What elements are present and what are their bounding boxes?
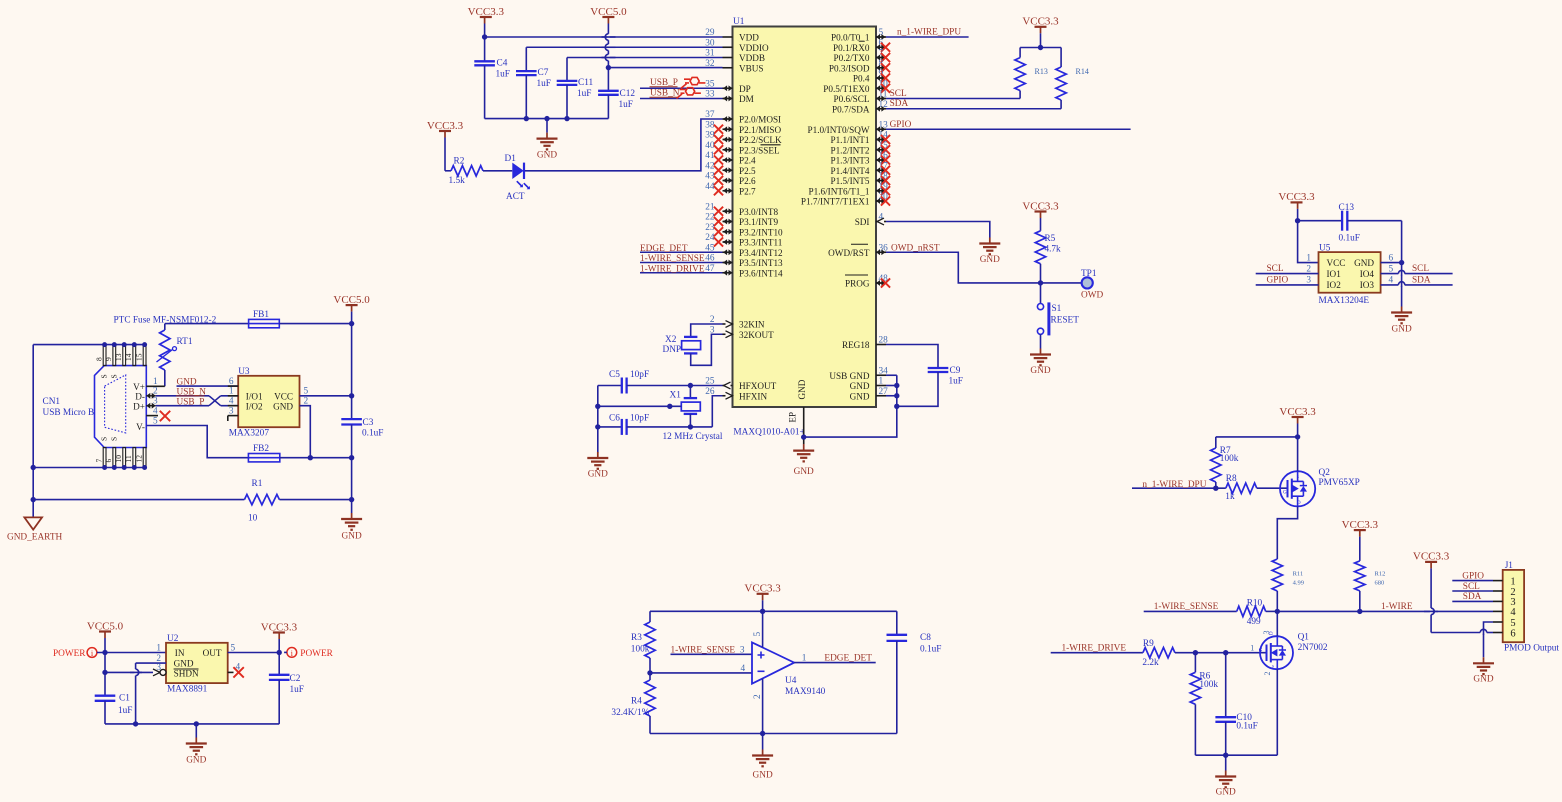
U1 pin 4 SDI [876,221,886,223]
U3 pin 6 [228,385,238,387]
net 1-WIRE wire [1277,610,1493,612]
ferrite bead FB2 [248,454,279,462]
svg-text:P3.3/INT11: P3.3/INT11 [739,238,783,248]
U1 pin 43 P2.6 [723,180,733,182]
svg-text:5: 5 [153,416,158,426]
svg-text:R12: R12 [1375,571,1386,578]
svg-text:PMV65XP: PMV65XP [1319,478,1360,488]
power indicator POWER (output) [287,648,297,658]
J1 pin 2 [1493,590,1503,592]
U1 pin 2 32KIN [723,323,733,325]
wire VDDIO (restore at hop) [602,46,616,48]
svg-text:1-WIRE_DRIVE: 1-WIRE_DRIVE [640,264,705,274]
svg-text:P2.7: P2.7 [739,186,756,196]
IC U1 MAXQ1010-A01+ body [733,27,877,408]
wire VBUS [608,67,722,69]
svg-text:32.4K/1%: 32.4K/1% [611,708,649,718]
svg-text:SDA: SDA [890,99,909,109]
svg-text:13: 13 [114,353,123,361]
svg-text:R4: R4 [631,697,642,707]
U3 pin 3 stub [228,415,238,417]
node junction [760,731,765,736]
capacitor C9 1uF [928,367,949,369]
wire J1 pin5 to ground [1484,622,1494,657]
svg-text:DP: DP [739,84,751,94]
svg-text:3: 3 [740,646,745,656]
svg-text:VCC: VCC [1327,258,1346,268]
wire POWER to IN [97,652,166,654]
wire HFXIN [712,396,722,427]
svg-text:Q2: Q2 [1319,468,1331,478]
svg-text:1-WIRE_SENSE: 1-WIRE_SENSE [671,646,736,656]
svg-text:V+: V+ [133,382,145,392]
wire R2 to D1 [483,170,512,172]
U3 pin 1 [228,395,238,397]
svg-text:2: 2 [753,694,763,699]
ground GND (regulator) [195,724,197,738]
capacitor C6 10pF [598,426,622,428]
svg-text:4.7k: 4.7k [1045,244,1061,254]
U1 pin P0.1 RX0 overline [859,40,865,42]
svg-text:9: 9 [104,357,113,361]
svg-text:C8: C8 [920,633,931,643]
svg-text:U3: U3 [238,367,250,377]
net USB_N wire to DM [640,98,723,100]
svg-text:R2: R2 [454,157,465,167]
U1 pin 18 P1.5/INT5 [876,180,886,182]
net 1-WIRE_SENSE wire [1144,610,1237,612]
U1 pin 16 P1.3/INT3 [876,159,886,161]
node junction [1038,45,1043,50]
svg-text:G: G [1283,491,1287,496]
svg-text:C5: C5 [609,370,620,380]
svg-text:VDDIO: VDDIO [739,43,769,53]
svg-text:P3.0/INT8: P3.0/INT8 [739,207,778,217]
svg-text:GND: GND [588,470,608,480]
node junction X1 top [688,383,693,388]
U1 pin 25 HFXOUT [723,385,733,387]
svg-text:P0.1/RX0: P0.1/RX0 [833,43,870,53]
ground GND (SDI) [989,238,991,244]
svg-text:P2.2/SCLK: P2.2/SCLK [739,135,782,145]
wire 32KIN [691,324,723,337]
svg-text:32KOUT: 32KOUT [739,330,774,340]
svg-text:S: S [100,374,109,378]
svg-text:HFXIN: HFXIN [739,391,767,401]
svg-text:6: 6 [1389,253,1394,263]
wire Q1 drain to 1-WIRE [1276,611,1278,636]
svg-text:0.1uF: 0.1uF [362,429,383,439]
svg-text:P1.3/INT3: P1.3/INT3 [830,156,869,166]
resistor R11 4.99 [1276,547,1278,559]
svg-text:GND: GND [174,659,194,669]
svg-text:P1.1/INT1: P1.1/INT1 [830,135,869,145]
svg-text:4: 4 [1510,607,1516,618]
svg-text:2: 2 [304,397,309,407]
svg-text:P3.1/INT9: P3.1/INT9 [739,217,778,227]
svg-text:MAX13204E: MAX13204E [1319,296,1370,306]
svg-text:VDDB: VDDB [739,53,765,63]
differential pair mark USB_N [677,94,683,99]
U1 pin 12 P0.7/SDA [876,108,886,110]
U1 pin 38 P2.1/MISO [723,128,733,130]
svg-text:FB2: FB2 [253,444,269,454]
node junction EP [801,434,806,439]
wire shield left column [32,345,34,518]
crystal X2 DNP [684,336,697,338]
svg-text:DM: DM [739,94,754,104]
svg-text:VBUS: VBUS [739,63,764,73]
wire VDDB (restore at hop) [602,57,616,59]
net OWD_nRST wire [886,252,1041,283]
U1 pin 30 VDDIO [723,46,733,48]
svg-text:P2.6: P2.6 [739,176,756,186]
wire hop [607,54,609,60]
svg-text:P0.6/SCL: P0.6/SCL [834,94,870,104]
svg-text:2: 2 [153,387,158,397]
svg-text:V-: V- [136,422,145,432]
svg-text:IO3: IO3 [1360,280,1375,290]
CN1 pin 2 D- wire USB_N [146,393,155,399]
capacitor C10 0.1uF [1225,653,1227,718]
svg-text:EDGE_DET: EDGE_DET [640,244,688,254]
U1 pin 40 P2.3/SSEL [723,149,733,151]
U1 pin 11 P0.6/SCL [876,98,886,100]
svg-text:D1: D1 [505,154,517,164]
svg-text:P0.4: P0.4 [853,74,870,84]
svg-text:S: S [110,374,119,378]
svg-text:1k: 1k [1225,492,1235,502]
U1 pin 32 VBUS [723,67,733,69]
svg-text:J1: J1 [1505,561,1514,571]
svg-text:IO1: IO1 [1327,269,1342,279]
svg-text:D+: D+ [133,402,145,412]
svg-text:10pF: 10pF [630,370,649,380]
U1 pin 34 USB GND [876,374,886,376]
wire VDD (restore at hop) [602,36,616,38]
svg-text:1: 1 [1306,253,1311,263]
connector J1 PMOD body [1503,570,1524,642]
ground GND (EP) [803,444,805,451]
svg-text:POWER: POWER [53,649,86,659]
net GPIO wire (P1.0) [886,128,1131,130]
net 1-WIRE_SENSE wire to P3.5 [640,262,723,264]
svg-text:P2.4: P2.4 [739,156,756,166]
U1 pin 45 P3.4/INT12 [723,251,733,253]
svg-text:P1.4/INT4: P1.4/INT4 [830,166,869,176]
U1 pin 19 P1.6/INT6/T1_1 [876,190,886,192]
node junction C7 [524,116,529,121]
svg-text:R11: R11 [1293,571,1304,578]
svg-text:R8: R8 [1226,474,1237,484]
svg-text:IO2: IO2 [1327,280,1342,290]
svg-text:GND: GND [797,379,807,399]
svg-text:6: 6 [1510,628,1515,639]
svg-text:1.5k: 1.5k [449,176,466,186]
svg-text:1: 1 [802,653,807,663]
node junction [1223,753,1228,758]
U1 pin 36 OWD/RST [876,251,886,253]
svg-text:SDI: SDI [855,217,870,227]
J1 pin 6 [1493,632,1503,634]
net GPIO wire (J1) [1452,580,1493,582]
crystal X1 12MHz [689,386,691,399]
wire shell bottom [33,467,144,469]
wire to test point TP1 [1041,282,1082,284]
capacitor C8 0.1uF [896,611,898,635]
CN1 pin 5 V- wire [146,426,248,458]
svg-text:S: S [110,437,119,441]
svg-text:P3.4/INT12: P3.4/INT12 [739,248,783,258]
U1 pin 47 P3.6/INT14 [723,272,733,274]
capacitor C11 [566,58,568,81]
resistor R10 499 [1237,606,1266,616]
svg-text:MAXQ1010-A01+: MAXQ1010-A01+ [733,428,804,438]
node junction case [667,404,672,409]
wire ESD ground column [1401,221,1403,307]
net SCL wire (J1) [1452,590,1493,592]
svg-text:GND: GND [1392,325,1412,335]
svg-text:R10: R10 [1247,598,1263,608]
svg-text:0.1uF: 0.1uF [1236,722,1257,732]
CN1 shell pins bottom (7 6 10 11 12) [103,448,106,467]
capacitor C7 [525,47,527,71]
U1 pin 28 REG18 [876,344,886,346]
svg-text:P1.7/INT7/T1EX1: P1.7/INT7/T1EX1 [801,197,870,207]
svg-text:P0.5/T1EX0: P0.5/T1EX0 [823,84,870,94]
svg-text:P3.2/INT10: P3.2/INT10 [739,227,783,237]
connector CN1 USB Micro B body [95,366,147,448]
U1 pin 37 P2.0/MOSI [723,118,733,120]
svg-text:R1: R1 [252,479,263,489]
wire D1 to P2.0 [525,119,723,171]
svg-text:10: 10 [114,455,123,463]
svg-text:7: 7 [94,459,103,463]
transistor Q2 PMV65XP (PMOS) [1280,471,1315,506]
svg-text:10pF: 10pF [630,413,649,423]
svg-text:CN1: CN1 [43,397,61,407]
U1 pin OWD/RST overline over RST [851,243,868,245]
ground GND (decoupling bus) [546,119,548,133]
IC U5 MAX13204E body [1319,252,1381,293]
svg-text:SCL: SCL [1267,264,1284,274]
resistor R5 4.7k [1035,231,1045,264]
resistor R3 100k [649,611,651,622]
svg-text:GND: GND [980,255,1000,265]
svg-text:U5: U5 [1319,243,1331,253]
svg-text:X1: X1 [670,391,682,401]
node junction C6 X1 [688,424,693,429]
wire shell top [33,344,144,346]
svg-text:VCC: VCC [274,391,293,401]
CN1 pin 3 D+ wire USB_P [146,403,155,409]
svg-text:14: 14 [124,353,133,361]
capacitor C5 10pF [598,385,622,387]
node junction [277,650,282,655]
wire Q1 source to rail [1276,669,1278,755]
wire VCC5.0 to VBUS with hops [607,34,609,68]
svg-text:1-WIRE_SENSE: 1-WIRE_SENSE [1154,602,1219,612]
svg-text:P1.2/INT2: P1.2/INT2 [830,145,869,155]
resistor R1 10 [33,499,244,501]
U1 pin 6 P0.1/RX0 [876,46,886,48]
U1 pin 41 P2.4 [723,159,733,161]
svg-text:SCL: SCL [1463,582,1480,592]
svg-text:P2.5: P2.5 [739,166,756,176]
wire Q2 top rail [1216,436,1298,438]
U1 pin 22 P3.1/INT9 [723,221,733,223]
svg-text:2: 2 [1306,264,1311,274]
svg-text:4: 4 [741,664,746,674]
resistor R2 1.5k [445,170,451,172]
svg-text:S: S [100,437,109,441]
svg-text:USB GND: USB GND [829,371,869,381]
svg-text:P0.0/T0_1: P0.0/T0_1 [831,33,870,43]
capacitor C12 [607,68,609,91]
net n_1-WIRE_DPU wire (P0.0) [886,36,969,38]
svg-text:1: 1 [1510,576,1515,587]
svg-text:2: 2 [1263,672,1272,676]
U1 pin 46 P3.5/INT13 [723,262,733,264]
svg-text:C7: C7 [538,68,549,78]
U1 pin 35 DP [723,87,733,89]
svg-text:GND: GND [537,151,557,161]
U1 pin 5 P0.0/T0_1 [876,36,886,38]
svg-text:GND: GND [1354,258,1374,268]
svg-text:6: 6 [104,459,113,463]
wire SDI to ground [886,222,990,238]
U4 pin 2 supply wire [762,678,764,733]
svg-text:PROG: PROG [845,279,870,289]
svg-text:PMOD Output: PMOD Output [1504,643,1559,653]
U1 pin PROG overline [845,274,868,276]
U5 pin 6 GND wire [1381,262,1402,264]
wire REG18 to C9 [886,345,938,369]
svg-text:RESET: RESET [1051,316,1080,326]
svg-text:MAX9140: MAX9140 [785,687,826,697]
svg-text:GPIO: GPIO [1462,571,1484,581]
node junction OWD [1038,280,1043,285]
svg-text:5: 5 [1510,618,1515,629]
node junction [194,721,199,726]
wire comparator top rail [650,610,897,612]
svg-text:GND: GND [273,402,293,412]
svg-text:U4: U4 [785,676,797,686]
svg-text:2N7002: 2N7002 [1298,643,1328,653]
ground GND (1-wire driver) [1225,755,1227,770]
svg-text:C2: C2 [290,674,301,684]
svg-text:5: 5 [1389,264,1394,274]
svg-text:OWD/RST: OWD/RST [828,248,870,258]
wire Q2 source to VCC [1297,437,1299,471]
node junction [595,424,600,429]
svg-text:100k: 100k [1220,454,1239,464]
svg-text:P2.0/MOSI: P2.0/MOSI [739,115,781,125]
svg-text:R9: R9 [1143,639,1154,649]
wire hop [607,34,609,40]
svg-text:1: 1 [879,377,884,387]
node junction [31,497,36,502]
U1 pin 20 P1.7/INT7/T1EX1 [876,200,886,202]
svg-text:GPIO: GPIO [890,120,912,130]
U5 pin 2 SCL wire [1256,273,1319,275]
svg-text:GND: GND [794,467,814,477]
node junction C9 return [894,404,899,409]
svg-text:3: 3 [153,397,158,407]
svg-text:499: 499 [1247,617,1261,627]
U3 pin 5 VCC wire [300,395,352,397]
svg-text:5: 5 [753,632,763,637]
U3 pin 2 GND wire [300,406,311,458]
svg-text:1: 1 [229,387,234,397]
U1 pin 21 P3.0/INT8 [723,210,733,212]
svg-text:DNP: DNP [663,345,682,355]
svg-text:P1.5/INT5: P1.5/INT5 [830,176,869,186]
svg-text:OWD_nRST: OWD_nRST [891,244,940,254]
capacitor C2 1uF [278,653,280,675]
wire decoupling ground bus [485,118,609,120]
svg-text:P3.5/INT13: P3.5/INT13 [739,258,783,268]
U1 pin 17 P1.4/INT4 [876,169,886,171]
svg-text:VDD: VDD [739,33,759,43]
wire regulator ground rail [105,723,279,725]
svg-text:P0.2/TX0: P0.2/TX0 [834,53,870,63]
wire divider to inverting input [650,672,752,674]
svg-text:n_1-WIRE_DPU: n_1-WIRE_DPU [1142,480,1206,490]
net 1-WIRE_SENSE wire to comparator [671,653,753,655]
ground GND (S1) [1040,349,1042,355]
svg-text:3: 3 [1306,276,1311,286]
svg-text:4.99: 4.99 [1293,580,1304,587]
svg-text:USB Micro B: USB Micro B [43,408,95,418]
svg-text:s: s [1272,665,1274,670]
svg-text:SHDN: SHDN [174,669,199,679]
svg-text:C4: C4 [497,59,508,69]
svg-text:SDA: SDA [1463,592,1482,602]
svg-text:11: 11 [124,455,133,462]
U1 pin 29 VDD [723,36,733,38]
node junction GND pin1 [894,383,899,388]
svg-text:GPIO: GPIO [1267,275,1289,285]
U1 pin 9 P0.4 [876,77,886,79]
wire S1 to ground [1040,334,1042,348]
svg-text:R13: R13 [1035,67,1048,76]
wire Q1 ground rail [1195,754,1277,756]
svg-text:C9: C9 [950,366,961,376]
svg-text:12: 12 [134,455,143,463]
ground GND (crystal) [597,451,599,453]
wire FB1 to VCC5.0 [279,323,351,325]
wire EP to ground [803,407,805,444]
U5 pin 3 GPIO wire [1256,284,1319,286]
svg-text:C1: C1 [119,694,130,704]
capacitor C4 [484,37,486,61]
svg-text:0.1uF: 0.1uF [1339,234,1360,244]
CN1 shell pins top (8 9 13 14 15) [103,346,106,365]
U1 pin 42 P2.5 [723,169,733,171]
wire comparator bottom rail [650,733,897,735]
svg-text:3: 3 [229,406,234,416]
svg-text:1-WIRE: 1-WIRE [1381,602,1413,612]
capacitor C13 0.1uF [1298,220,1343,222]
svg-text:C13: C13 [1339,203,1355,213]
svg-text:FB1: FB1 [253,310,269,320]
U1 pin 3 32KOUT [723,333,733,335]
U5 pin 5 SCL out wire [1381,273,1399,275]
net SDA wire (J1) [1452,600,1493,602]
U2 pin 3 SHDN wire [153,669,160,676]
wire VCC5 column to C1 [104,653,106,696]
